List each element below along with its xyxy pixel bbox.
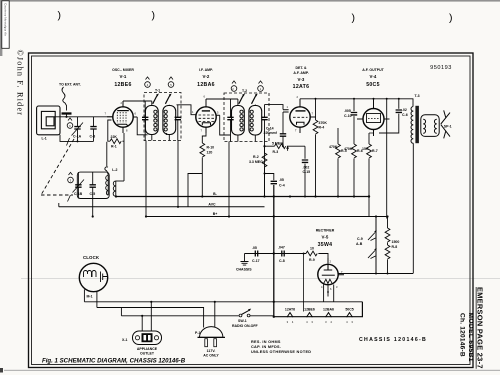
svg-text:12AT6: 12AT6 [285,308,295,312]
svg-text:V-3: V-3 [298,77,305,82]
svg-text:OUTLET: OUTLET [140,352,155,356]
svg-text:4: 4 [330,320,332,324]
svg-text:): ) [152,10,156,22]
svg-text:4: 4 [346,320,348,324]
svg-text:1: 1 [287,105,289,109]
svg-text:3: 3 [336,285,338,289]
svg-text:SP-1: SP-1 [444,125,452,129]
svg-text:R-8: R-8 [392,245,398,249]
svg-text:3.3 MEG.: 3.3 MEG. [249,160,264,164]
svg-text:150: 150 [362,147,368,151]
svg-text:L-1: L-1 [42,137,47,141]
svg-text:3: 3 [325,320,327,324]
svg-text:4: 4 [321,285,323,289]
svg-text:.047: .047 [278,246,285,250]
svg-text:C-6: C-6 [402,113,408,117]
svg-text:MODEL 695B1: MODEL 695B1 [467,313,474,362]
svg-text:CAP. IN MFDS.: CAP. IN MFDS. [251,345,281,349]
svg-text:.005: .005 [344,109,351,113]
svg-text:V-1: V-1 [120,74,127,79]
svg-text:RES. IN OHMS: RES. IN OHMS [251,340,281,344]
svg-text:RADIO ON-OFF: RADIO ON-OFF [232,324,259,328]
svg-text:): ) [449,12,453,24]
svg-text:2: 2 [121,101,123,105]
svg-text:7: 7 [201,129,203,133]
svg-text:22K: 22K [111,135,118,139]
svg-text:Courtesy Nostalgia Air: Courtesy Nostalgia Air [3,3,7,36]
svg-text:C-5: C-5 [90,192,96,196]
svg-text:8: 8 [126,129,128,133]
svg-text:T-1: T-1 [155,89,160,93]
svg-text:220mmf: 220mmf [264,131,278,135]
svg-text:A.F. AMP.: A.F. AMP. [293,71,309,75]
svg-text:C-9: C-9 [357,237,363,241]
svg-text:.02: .02 [402,108,407,112]
svg-text:V-4: V-4 [370,74,377,79]
svg-text:EMERSON PAGE 23-7: EMERSON PAGE 23-7 [476,287,485,369]
svg-text:RECTIFIER: RECTIFIER [316,229,335,233]
svg-text:CLOCK: CLOCK [83,255,100,260]
svg-text:950193: 950193 [430,65,452,71]
svg-text:M-1: M-1 [87,295,93,299]
svg-text:C-1B: C-1B [74,192,83,196]
svg-text:1500: 1500 [392,240,400,244]
svg-text:4: 4 [292,320,294,324]
svg-text:12BE6: 12BE6 [304,308,315,312]
svg-text:CHASSIS 120146-B: CHASSIS 120146-B [359,337,427,343]
svg-text:V-2: V-2 [203,74,210,79]
svg-text:UNLESS OTHERWISE NOTED: UNLESS OTHERWISE NOTED [251,350,311,354]
svg-text:AC ONLY: AC ONLY [203,354,219,358]
svg-text:©John F. Rider: ©John F. Rider [16,50,25,117]
svg-text:DET. &: DET. & [295,66,307,70]
svg-text:12BA6: 12BA6 [197,82,215,88]
svg-text:2: 2 [297,95,299,99]
svg-text:.05: .05 [279,178,284,182]
svg-text:C-10: C-10 [344,114,352,118]
svg-text:2: 2 [232,87,234,91]
svg-text:L-2: L-2 [112,168,117,172]
svg-text:APPLIANCE: APPLIANCE [137,347,158,351]
svg-text:C-15: C-15 [303,170,311,174]
svg-text:.002: .002 [303,166,310,170]
svg-text:4: 4 [147,83,149,87]
svg-text:12AT6: 12AT6 [293,84,310,90]
svg-text:X-1: X-1 [122,338,128,342]
svg-text:Fig. 1 SCHEMATIC DIAGRAM, CH: Fig. 1 SCHEMATIC DIAGRAM, CHASSIS 120146… [42,358,186,365]
svg-text:117V.: 117V. [207,349,216,353]
svg-text:Ch. 120146-B: Ch. 120146-B [459,313,466,357]
svg-text:R-10: R-10 [207,146,215,150]
svg-text:4: 4 [306,320,308,324]
svg-text:C-3: C-3 [90,135,96,139]
svg-text:3: 3 [287,320,289,324]
svg-text:R-2: R-2 [253,155,259,159]
svg-text:6: 6 [204,95,206,99]
svg-text:7: 7 [105,112,107,116]
svg-text:R-3: R-3 [273,150,279,154]
svg-text:470K: 470K [344,147,353,151]
svg-text:12BE6: 12BE6 [114,82,131,88]
svg-text:3: 3 [351,320,353,324]
svg-text:P-1: P-1 [195,331,201,335]
svg-text:C-17: C-17 [252,259,260,263]
svg-text:A.F. OUTPUT: A.F. OUTPUT [362,68,384,72]
svg-text:AVC: AVC [208,202,216,206]
svg-text:OSC.- MIXER: OSC.- MIXER [112,68,134,72]
svg-text:R-4: R-4 [319,126,325,130]
svg-text:3: 3 [311,320,313,324]
svg-text:C-1A: C-1A [73,135,82,139]
svg-text:2: 2 [330,260,332,264]
svg-text:5: 5 [170,83,172,87]
svg-text:470K: 470K [329,145,338,149]
svg-text:R-1: R-1 [111,145,117,149]
svg-text:12BA6: 12BA6 [323,308,334,312]
svg-text:V-5: V-5 [322,235,329,240]
svg-text:470K: 470K [319,121,328,125]
svg-text:B-: B- [213,192,218,196]
svg-text:50C5: 50C5 [345,308,353,312]
svg-text:.05: .05 [252,246,257,250]
svg-text:T-3: T-3 [415,94,420,98]
svg-text:I.F. AMP.: I.F. AMP. [199,68,213,72]
svg-text:120: 120 [207,151,213,155]
svg-text:6: 6 [135,112,137,116]
svg-text:5 MEG.: 5 MEG. [272,141,284,145]
svg-text:10: 10 [310,247,314,251]
svg-text:T-2: T-2 [242,89,247,93]
svg-text:R-9: R-9 [309,258,315,262]
svg-text:5: 5 [217,111,219,115]
svg-text:B+: B+ [213,212,218,216]
svg-text:C-4: C-4 [279,184,285,188]
svg-text:R-7: R-7 [372,149,378,153]
svg-text:): ) [58,10,62,22]
svg-text:A-B: A-B [356,242,363,246]
svg-text:1: 1 [192,110,194,114]
svg-text:3: 3 [70,178,72,182]
svg-text:TO EXT. ANT.: TO EXT. ANT. [59,83,81,87]
svg-text:7: 7 [312,112,314,116]
svg-text:1: 1 [260,87,262,91]
svg-text:50C5: 50C5 [366,82,380,88]
svg-text:T: T [295,129,297,133]
svg-text:SW-1: SW-1 [238,319,247,323]
svg-text:CHASSIS: CHASSIS [236,268,252,272]
svg-text:C-8: C-8 [279,259,285,263]
svg-text:6: 6 [69,124,71,128]
svg-text:): ) [352,12,356,24]
svg-text:35W4: 35W4 [318,242,333,248]
svg-text:6: 6 [330,287,332,291]
